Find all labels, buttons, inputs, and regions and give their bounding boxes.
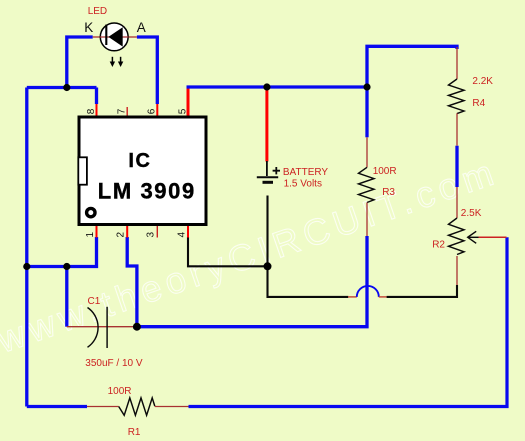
wire: top horizontal pin5 to R3 junction: [187, 85, 368, 88]
R4 zigzag: [449, 79, 465, 114]
pin stub 3: [156, 226, 158, 238]
C1 lead line: [67, 326, 137, 328]
svg-text:2: 2: [116, 232, 127, 238]
watermark www.theoryCIRCUIT.com: [0, 152, 498, 361]
wire: hop red stub right: [379, 296, 387, 298]
wire: hop arc: [357, 286, 379, 297]
svg-text:7: 7: [117, 108, 128, 114]
wire: battery positive red: [265, 87, 268, 162]
wire: top-left horizontal K-net: [27, 86, 97, 89]
battery plus sign: [273, 167, 280, 174]
LED emission arrow 2: [118, 57, 123, 67]
R3 zigzag: [359, 167, 375, 202]
pin stub 5: [187, 104, 189, 116]
svg-text:5: 5: [177, 108, 188, 114]
svg-text:R2: R2: [432, 239, 445, 250]
capacitor C1: [67, 307, 137, 348]
node junction dot cap riser: [63, 263, 70, 270]
C1 straight plate: [106, 307, 108, 348]
svg-text:A: A: [137, 20, 146, 35]
R2 bottom lead: [456, 256, 458, 285]
battery B1: [257, 161, 280, 182]
IC notch: [78, 157, 87, 184]
node junction dot battery bottom pin4: [264, 262, 272, 270]
R1 right lead: [155, 406, 189, 408]
pin stub 2: [126, 226, 128, 238]
wire: cap junction up to pin2 jog: [127, 237, 137, 327]
wire: pin5 red riser: [187, 87, 190, 116]
R1 zigzag: [119, 398, 155, 415]
wire: R3 bottom blue to cap junction: [137, 236, 367, 327]
svg-text:350uF / 10 V: 350uF / 10 V: [85, 358, 143, 369]
R3 top lead: [366, 137, 368, 167]
R2 wiper shaft black: [468, 236, 479, 238]
battery top lead: [266, 161, 268, 176]
wire: hop red stub left: [348, 296, 357, 298]
wire: junction up to R4 top: [367, 46, 457, 87]
battery long plate: [257, 176, 278, 178]
R2 zigzag: [449, 218, 465, 255]
svg-text:8: 8: [86, 108, 97, 114]
wire: left rail vertical: [25, 88, 28, 407]
LED lead left: [93, 36, 107, 38]
wire: LED K drop: [67, 37, 93, 88]
wire: black run to hop left: [268, 266, 349, 297]
R3 bottom lead: [366, 203, 368, 237]
wire: black run hop to R2 bottom: [387, 285, 457, 297]
wire: pin4 black net: [188, 237, 268, 266]
svg-text:R1: R1: [128, 427, 141, 438]
LED lead right: [123, 36, 137, 38]
wire: LED A to pin6: [137, 37, 157, 104]
resistor R1: [87, 398, 189, 415]
svg-text:6: 6: [147, 108, 158, 114]
R2 wiper wire red: [479, 236, 507, 238]
pin stub 8: [96, 104, 98, 116]
wire: bottom loop R1 right to R2 wiper: [189, 237, 508, 406]
LED circle: [100, 23, 128, 51]
svg-text:R4: R4: [472, 98, 485, 109]
svg-text:1: 1: [85, 232, 96, 238]
svg-text:4: 4: [176, 232, 187, 238]
svg-text:C1: C1: [88, 296, 101, 307]
svg-text:BATTERY: BATTERY: [283, 167, 329, 178]
wire: junction down to R3: [365, 87, 368, 137]
op-amp U1: IC LM3909 body: [79, 117, 206, 225]
wire: cap left riser: [65, 267, 68, 327]
svg-text:3: 3: [146, 232, 157, 238]
node junction dot left rail mid: [23, 263, 30, 270]
R4 bottom lead: [456, 113, 458, 145]
svg-text:LM 3909: LM 3909: [98, 179, 196, 204]
LED D1: [93, 23, 137, 67]
node junction dot cap right: [133, 323, 141, 331]
LED cathode bar: [105, 25, 107, 45]
node junction dot LED-K rail: [63, 84, 70, 91]
node junction dot battery top: [263, 83, 270, 90]
wire: pin8 drop: [95, 88, 98, 105]
potentiometer R2: [449, 187, 507, 285]
svg-text:1.5 Volts: 1.5 Volts: [284, 178, 322, 189]
R1 left lead: [87, 406, 119, 408]
pin stub 7: [126, 107, 128, 116]
resistor R4: [449, 47, 465, 146]
svg-text:LED: LED: [88, 6, 107, 17]
R4 top lead: [456, 47, 458, 79]
svg-text:100R: 100R: [373, 166, 397, 177]
resistor R3: [359, 137, 375, 236]
IC pin1 marker dot: [87, 208, 95, 216]
svg-text:R3: R3: [382, 187, 395, 198]
battery short plate: [263, 181, 274, 184]
LED emission arrow 1: [110, 57, 115, 67]
svg-text:100R: 100R: [108, 386, 132, 397]
pin stub 4: [187, 226, 189, 238]
pin stub 1: [96, 226, 98, 238]
pin stub 6: [156, 104, 158, 116]
wire: R4-R2 mid blue segment: [455, 146, 458, 187]
svg-text:2.5K: 2.5K: [461, 208, 482, 219]
R2 top lead: [456, 187, 458, 218]
svg-text:2.2K: 2.2K: [472, 76, 493, 87]
wire: pin1 drop and left run: [27, 237, 97, 267]
LED triangle: [108, 27, 122, 46]
wire: battery negative black lead: [266, 196, 268, 267]
LED lead inside: [100, 36, 128, 38]
C1 curved plate: [88, 308, 99, 348]
svg-text:K: K: [84, 20, 93, 35]
svg-text:IC: IC: [128, 150, 151, 172]
R2 wiper arrowhead: [468, 231, 477, 243]
node junction dot R3/R4: [363, 83, 370, 90]
wire: bottom loop R1 left: [27, 405, 87, 408]
